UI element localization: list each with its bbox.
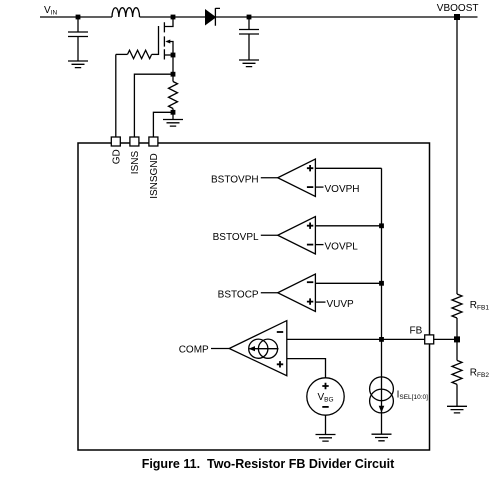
wire FB line <box>287 338 457 340</box>
resistor RFB2 <box>452 360 462 384</box>
wire VBOOST down <box>456 17 458 294</box>
junction C2 <box>247 15 252 20</box>
svg-text:Figure 11. Two-Resistor FB Di: Figure 11. Two-Resistor FB Divider Circu… <box>142 457 395 471</box>
resistor gate RG <box>128 50 152 58</box>
ground RFB2 <box>447 406 467 413</box>
capacitor C2 lead top <box>248 17 250 30</box>
mosfet Q1 channel dashes <box>163 22 165 59</box>
comparator U1 BSTOVPH input wire <box>261 177 278 179</box>
comparator U2 triangle <box>278 217 316 255</box>
ground RSNS <box>163 120 183 127</box>
capacitor C1 plates <box>68 32 88 37</box>
wire FB node to RFB2 <box>456 339 458 360</box>
wire ISNSGND <box>153 112 173 137</box>
svg-text:VUVP: VUVP <box>327 299 355 310</box>
sign comp U2 plus <box>307 223 313 229</box>
sign comp U3 minus <box>307 281 313 283</box>
wire RFB1 to FB node <box>456 318 458 339</box>
resistor RSNS <box>169 82 178 109</box>
svg-text:BSTOCP: BSTOCP <box>218 290 259 301</box>
capacitor C1 lead top <box>77 17 79 32</box>
diode cathode bar <box>215 8 220 26</box>
wire GD <box>115 54 117 137</box>
ground C1 <box>68 61 88 68</box>
bus vertical <box>381 168 383 377</box>
IC box <box>78 143 430 450</box>
pin ISNSGND <box>149 137 158 146</box>
resistor RFB1 <box>452 294 462 318</box>
svg-text:VOVPL: VOVPL <box>325 242 359 253</box>
wire drain <box>164 17 173 27</box>
junction ISNSGND <box>171 110 176 115</box>
svg-text:BSTOVPH: BSTOVPH <box>211 175 259 186</box>
svg-text:VOVPH: VOVPH <box>325 184 360 195</box>
wire ISNS <box>134 74 173 137</box>
op-amp COMP triangle <box>229 321 287 376</box>
comparator U2 minus wire <box>315 244 323 246</box>
wire RSNS bottom <box>172 109 174 120</box>
voltage source VBG circle <box>307 378 344 415</box>
junction VBOOST <box>454 14 460 20</box>
comparator U1 minus wire <box>315 186 323 188</box>
op-amp gm arrow head <box>249 346 256 351</box>
comparator U3 minus wire to bus <box>315 282 381 284</box>
svg-text:GD: GD <box>112 149 123 164</box>
comparator U3 BSTOCP input wire <box>261 292 278 294</box>
sign opamp plus <box>277 361 283 367</box>
junction source <box>171 53 176 58</box>
mosfet Q1 gate bar <box>158 26 160 55</box>
op-amp plus wire to VBG <box>287 359 326 378</box>
comparator U2 plus wire to bus <box>315 225 381 227</box>
junction bus comp2 <box>379 223 384 228</box>
mosfet Q1 source lead <box>164 54 173 56</box>
capacitor C2 plates <box>239 30 259 35</box>
capacitor C1 lead bottom <box>77 37 79 62</box>
comparator U1 plus wire to bus <box>315 167 381 169</box>
wire VIN to inductor <box>40 16 112 18</box>
junction bus comp3 <box>379 281 384 286</box>
current source ISEL circles <box>370 377 394 401</box>
junction ISNS <box>171 72 176 77</box>
wire RG right lead <box>152 53 159 55</box>
svg-text:VBOOST: VBOOST <box>437 3 479 14</box>
ground VBG <box>316 435 336 442</box>
op-amp gm arrow line <box>250 348 279 350</box>
pin FB <box>425 335 434 344</box>
diode D1 triangle <box>206 10 216 25</box>
junction bus FB <box>379 337 384 342</box>
svg-text:COMP: COMP <box>179 345 209 356</box>
wire diode to VBOOST <box>215 16 477 18</box>
wire VBG to ground <box>325 415 327 434</box>
ground C2 <box>239 60 259 67</box>
pin GD <box>111 137 120 146</box>
sign VBG minus <box>322 406 328 408</box>
wire RG left lead <box>116 53 128 55</box>
wire RFB2 bottom <box>456 384 458 406</box>
wire source down <box>172 55 174 82</box>
inductor L1 <box>112 8 140 17</box>
pin ISNS <box>130 137 139 146</box>
sign opamp minus <box>277 331 283 333</box>
svg-text:FB: FB <box>410 325 423 336</box>
mosfet Q1 body line <box>167 42 174 56</box>
current source ISEL arrow head <box>379 406 385 413</box>
comparator U3 plus wire <box>315 301 325 303</box>
comparator U3 triangle <box>278 274 316 312</box>
mosfet Q1 body arrow head <box>165 40 170 44</box>
svg-text:ISNSGND: ISNSGND <box>149 153 160 199</box>
capacitor C2 lead bottom <box>248 34 250 60</box>
junction C1 <box>76 15 81 20</box>
svg-text:BSTOVPL: BSTOVPL <box>213 232 259 243</box>
sign comp U3 plus <box>307 298 313 304</box>
current source ISEL wire through <box>381 377 383 434</box>
wire inductor to diode <box>140 16 206 18</box>
sign comp U1 plus <box>307 165 313 171</box>
comparator U1 triangle <box>278 159 316 197</box>
svg-text:ISNS: ISNS <box>130 151 141 175</box>
junction drain <box>171 15 176 20</box>
sign VBG plus <box>322 383 328 389</box>
sign comp U1 minus <box>307 186 313 188</box>
op-amp COMP input wire <box>211 348 229 350</box>
op-amp gm circles <box>249 339 268 358</box>
junction FB divider <box>454 336 460 342</box>
comparator U2 BSTOVPL input wire <box>261 234 278 236</box>
ground ISEL <box>372 434 392 441</box>
sign comp U2 minus <box>307 244 313 246</box>
